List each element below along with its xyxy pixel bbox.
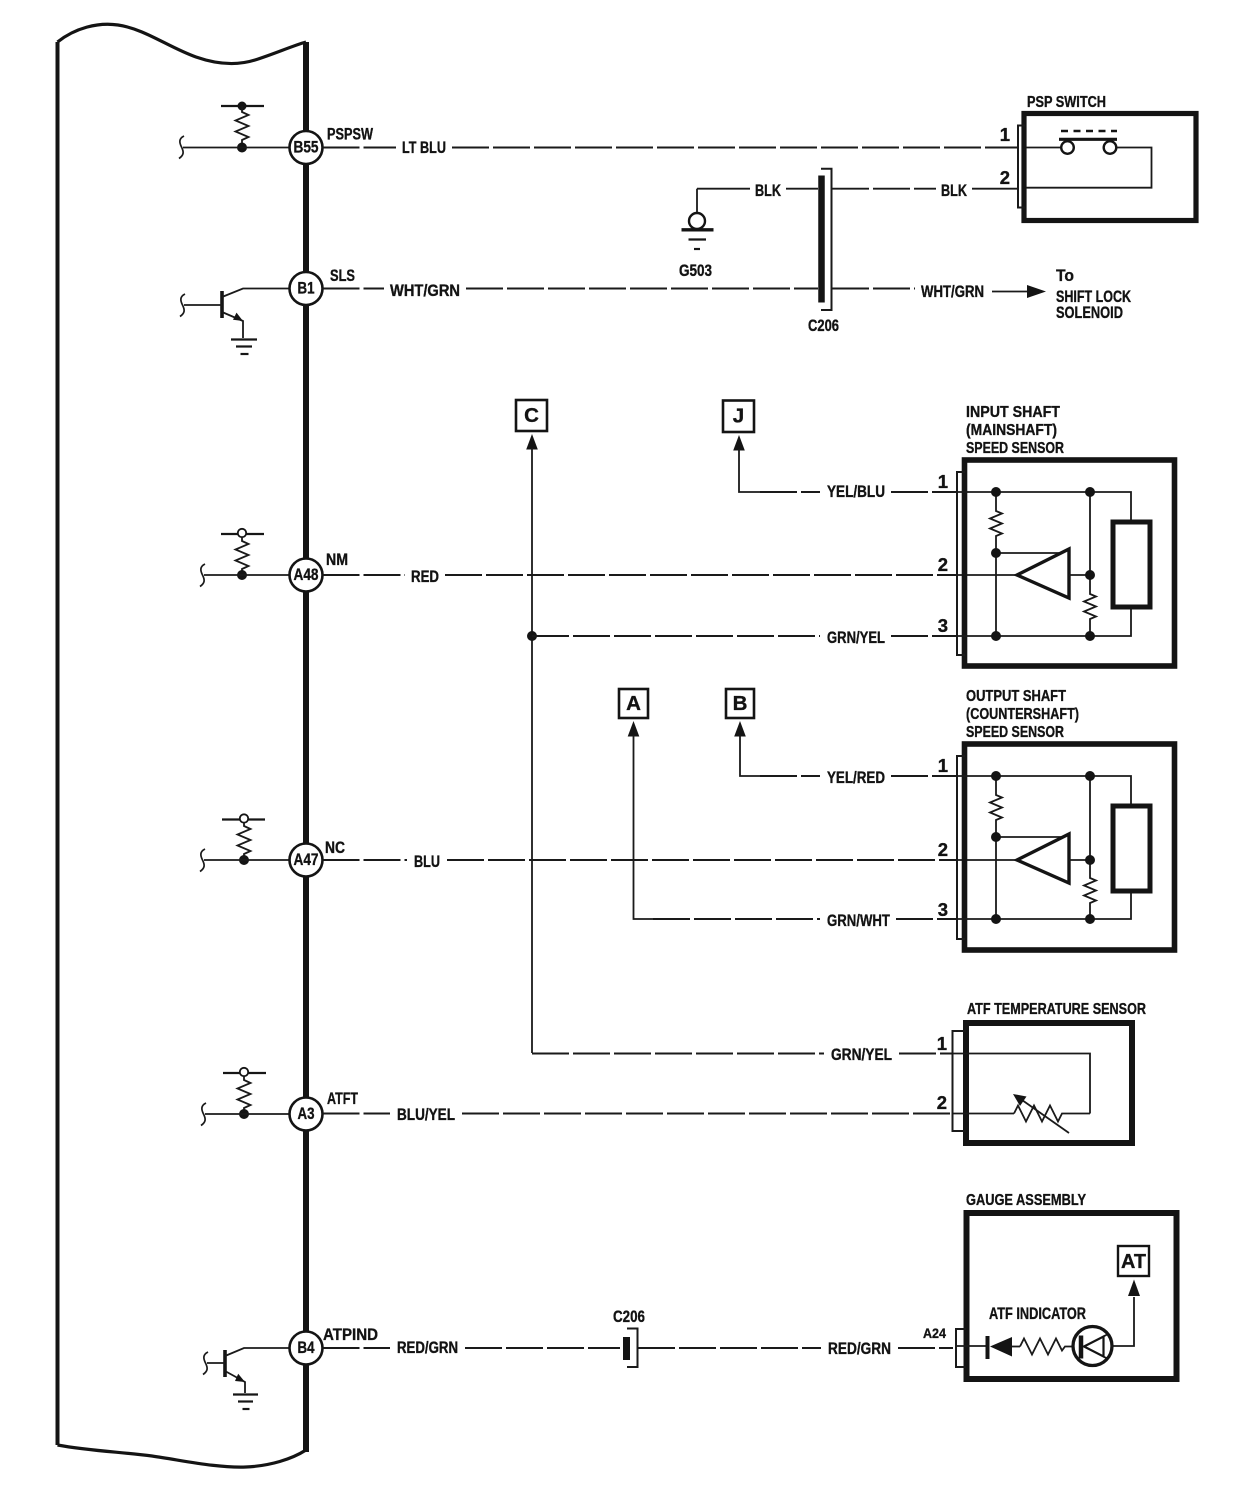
- input sensor bias resistor R-left: [990, 492, 1002, 553]
- wire BLU segment from A47: [323, 859, 408, 861]
- svg-text:BLK: BLK: [755, 182, 781, 200]
- connector C206 lower body bar: [623, 1337, 630, 1360]
- junction dot NC internal wire: [239, 855, 249, 865]
- junction dot NM internal wire: [237, 570, 247, 580]
- input sensor left rail lower segment: [995, 553, 997, 636]
- internal wire stub at B55: [183, 147, 289, 149]
- transistor Q2 base wire: [207, 1362, 225, 1364]
- wire label YEL/RED: [827, 769, 885, 787]
- svg-text:3: 3: [938, 615, 948, 636]
- arrow into box B: [734, 721, 746, 737]
- pull-up resistor at PSPSW: [236, 106, 249, 148]
- wire BLK segment to C206: [786, 188, 818, 190]
- net reference box C: [516, 400, 547, 431]
- gauge internal wire diode to resistor: [1012, 1346, 1020, 1348]
- pull-up resistor at ATFT: [238, 1076, 251, 1114]
- input sensor pin number 1: [938, 471, 948, 492]
- PSP pin number 1: [1000, 124, 1010, 145]
- output sensor left rail lower segment: [995, 837, 997, 919]
- net reference box AT: [1118, 1246, 1149, 1276]
- ground G503 symbol bars: [682, 230, 714, 249]
- wire BLU/YEL segment from A3: [323, 1113, 391, 1115]
- wire-continuation brace at Q2 base: [203, 1352, 208, 1375]
- wire label RED: [411, 568, 439, 586]
- ECU pin circle A3: [290, 1098, 323, 1131]
- wire WHT/GRN segment from C206: [832, 288, 915, 290]
- PSP switch connector bracket: [1018, 126, 1025, 208]
- svg-text:NC: NC: [325, 839, 345, 857]
- transistor Q1 base bar (SLS driver): [220, 291, 224, 318]
- output sensor load resistor R-right: [1084, 776, 1096, 919]
- PSP switch contact circle left: [1061, 141, 1074, 154]
- indicator lamp driver circle: [1073, 1327, 1112, 1366]
- svg-text:G503: G503: [679, 262, 712, 280]
- wire YEL/BLU segment to input sensor pin 1: [891, 491, 957, 493]
- ATF thermistor variable arrow: [1013, 1094, 1069, 1133]
- wire WHT/GRN segment to C206: [466, 288, 818, 290]
- svg-text:WHT/GRN: WHT/GRN: [390, 282, 460, 300]
- svg-text:C: C: [524, 404, 539, 427]
- junction dot net C and GRN/YEL: [527, 631, 537, 641]
- svg-text:2: 2: [937, 1092, 947, 1113]
- svg-text:PSP SWITCH: PSP SWITCH: [1027, 94, 1106, 111]
- wire label GRN/WHT: [827, 912, 890, 930]
- wire GRN/YEL segment from net C elbow: [532, 1053, 824, 1055]
- internal wire stub at A3: [205, 1113, 290, 1115]
- pull-up supply rail at NM: [221, 533, 264, 535]
- wire GRN/WHT segment to output sensor pin 3: [896, 918, 957, 920]
- output sensor amp output wire: [1069, 859, 1090, 861]
- ECU module band left edge: [56, 42, 60, 1445]
- supply node open circle at ATFT pull-up: [240, 1068, 248, 1076]
- wire YEL/RED segment to output sensor pin 1: [891, 775, 957, 777]
- input sensor pin1 internal rail wire: [955, 492, 1131, 522]
- input sensor junction dot: [1085, 631, 1095, 641]
- arrow into box C: [526, 434, 538, 450]
- wire label GRN/YEL input sensor: [827, 629, 885, 647]
- wire label RED/GRN left: [397, 1339, 458, 1357]
- indicator series resistor: [1020, 1339, 1072, 1355]
- indicator diode cathode bar: [986, 1336, 990, 1359]
- ATF temperature sensor title: [967, 1001, 1146, 1018]
- svg-text:1: 1: [938, 471, 948, 492]
- output sensor connector bracket: [957, 756, 965, 939]
- transistor Q2 emitter with arrow: [225, 1371, 245, 1393]
- indicator lamp triangle: [1084, 1334, 1108, 1359]
- svg-text:GRN/YEL: GRN/YEL: [827, 629, 885, 647]
- wire label LT BLU: [402, 139, 446, 157]
- output sensor pickup coil element: [1113, 806, 1150, 891]
- wire RED/GRN stub to gauge pin A24: [898, 1347, 953, 1349]
- wire label BLU: [414, 853, 440, 871]
- svg-text:ATFT: ATFT: [327, 1090, 358, 1108]
- svg-text:1: 1: [937, 1033, 947, 1054]
- wire label WHT/GRN left: [390, 282, 460, 300]
- input sensor junction dot: [991, 487, 1001, 497]
- svg-text:3: 3: [938, 899, 948, 920]
- wire-continuation brace at B55 stub: [179, 136, 184, 159]
- ECU pin circle B55: [290, 131, 323, 164]
- svg-text:PSPSW: PSPSW: [327, 126, 373, 144]
- ground symbol at Q1 emitter: [231, 340, 257, 355]
- wire-continuation brace at A48 stub: [200, 564, 205, 587]
- output sensor junction dot: [1085, 855, 1095, 865]
- sensor title line (MAINSHAFT): [966, 422, 1057, 439]
- svg-text:B4: B4: [298, 1339, 316, 1357]
- svg-text:2: 2: [938, 839, 948, 860]
- ECU module band torn bottom edge: [58, 1445, 307, 1467]
- wire RED segment from A48: [323, 574, 406, 576]
- junction dot ATFT internal wire: [239, 1109, 249, 1119]
- PSP switch box: [1024, 114, 1196, 221]
- PSP switch contact circle right: [1104, 141, 1117, 154]
- input sensor amplifier triangle U: [1017, 549, 1069, 598]
- svg-text:ATF TEMPERATURE SENSOR: ATF TEMPERATURE SENSOR: [967, 1001, 1146, 1018]
- sensor title line (COUNTERSHAFT): [966, 706, 1079, 723]
- svg-text:AT: AT: [1121, 1251, 1146, 1273]
- svg-text:C206: C206: [808, 317, 839, 335]
- ECU module band torn top edge: [58, 24, 307, 63]
- wire label BLU/YEL: [397, 1106, 455, 1124]
- svg-text:RED/GRN: RED/GRN: [397, 1339, 458, 1357]
- svg-text:B1: B1: [298, 279, 315, 297]
- input sensor pin number 2: [938, 554, 948, 575]
- svg-text:GAUGE ASSEMBLY: GAUGE ASSEMBLY: [966, 1192, 1086, 1209]
- output speed sensor box: [965, 744, 1175, 950]
- wire BLK segment from C206 to PSP switch: [832, 188, 936, 190]
- input sensor junction dot: [1085, 570, 1095, 580]
- svg-text:2: 2: [938, 554, 948, 575]
- svg-text:A: A: [626, 692, 641, 715]
- svg-text:A24: A24: [923, 1325, 946, 1341]
- output sensor junction dot: [991, 914, 1001, 924]
- output sensor pin number 3: [938, 899, 948, 920]
- connector C206 lower bracket: [627, 1329, 638, 1368]
- svg-text:BLK: BLK: [941, 182, 967, 200]
- connector C206 body bar: [818, 176, 825, 303]
- ECU pin circle A48: [290, 559, 323, 592]
- gauge assembly title: [966, 1192, 1086, 1209]
- indicator diode D1: [990, 1337, 1012, 1357]
- wire-continuation brace at A3 stub: [201, 1103, 206, 1126]
- wire YEL/BLU segment from net J: [760, 491, 820, 493]
- svg-text:RED: RED: [411, 568, 439, 586]
- output sensor amplifier triangle U: [1017, 834, 1069, 883]
- wire label GRN/YEL ATF sensor: [831, 1046, 892, 1064]
- ATF indicator label: [989, 1305, 1086, 1323]
- ATF sensor pin1 internal wire: [953, 1054, 1090, 1114]
- ground G503 riser wire: [696, 189, 698, 213]
- svg-text:LT BLU: LT BLU: [402, 139, 446, 157]
- svg-text:ATPIND: ATPIND: [323, 1326, 378, 1344]
- connector label C206: [808, 317, 839, 335]
- svg-text:NM: NM: [326, 551, 348, 569]
- pull-up supply rail at PSPSW: [221, 105, 264, 107]
- svg-text:YEL/RED: YEL/RED: [827, 769, 885, 787]
- ECU pin circle A47: [290, 844, 323, 877]
- wire net J vertical run: [739, 449, 762, 492]
- ground label G503: [679, 262, 712, 280]
- indicator lamp base bar: [1079, 1336, 1084, 1359]
- svg-text:RED/GRN: RED/GRN: [828, 1340, 891, 1358]
- sensor title line INPUT SHAFT: [966, 404, 1060, 421]
- svg-text:B55: B55: [294, 138, 319, 156]
- ground G503 circle: [689, 213, 705, 229]
- svg-text:SPEED SENSOR: SPEED SENSOR: [966, 724, 1064, 741]
- supply node open circle at NM pull-up: [238, 529, 246, 537]
- svg-text:WHT/GRN: WHT/GRN: [921, 283, 984, 301]
- input speed sensor box: [965, 460, 1175, 666]
- transistor Q1 collector: [222, 289, 289, 298]
- svg-text:SLS: SLS: [330, 267, 355, 285]
- input sensor pin number 3: [938, 615, 948, 636]
- ATF temperature sensor box: [966, 1023, 1132, 1143]
- output sensor pin1 internal rail wire: [955, 776, 1131, 806]
- wire YEL/RED segment from net B: [760, 775, 820, 777]
- PSP switch title: [1027, 94, 1106, 111]
- gauge pin label A24: [923, 1325, 946, 1341]
- ATF sensor pin2 internal wire: [953, 1113, 1014, 1115]
- svg-text:B: B: [733, 692, 748, 715]
- connector C206 lower label: [613, 1308, 645, 1326]
- svg-text:(COUNTERSHAFT): (COUNTERSHAFT): [966, 706, 1079, 723]
- output sensor junction dot: [1085, 771, 1095, 781]
- PSP pin number 2: [1000, 167, 1010, 188]
- wire LT BLU segment from B55: [323, 147, 397, 149]
- input sensor junction dot: [991, 548, 1001, 558]
- svg-text:SPEED SENSOR: SPEED SENSOR: [966, 440, 1064, 457]
- wire GRN/YEL segment to ATF sensor pin 1: [899, 1053, 952, 1055]
- svg-text:ATF INDICATOR: ATF INDICATOR: [989, 1305, 1086, 1323]
- wire BLU/YEL segment to ATF sensor pin 2: [462, 1113, 952, 1115]
- svg-text:INPUT SHAFT: INPUT SHAFT: [966, 404, 1060, 421]
- net reference box A: [619, 689, 648, 718]
- pin label ATPIND: [323, 1326, 378, 1344]
- pin label NC: [325, 839, 345, 857]
- output sensor pin3 internal rail wire: [955, 891, 1131, 919]
- wire RED/GRN segment from B4: [323, 1347, 391, 1349]
- wire GRN/YEL segment to input sensor pin 3: [891, 635, 957, 637]
- input sensor mid tap wire: [996, 552, 1066, 554]
- arrow into box J: [733, 435, 745, 451]
- PSP switch pin1 internal wire: [1026, 147, 1061, 149]
- destination label To SHIFT LOCK SOLENOID: [1056, 267, 1131, 322]
- wire label WHT/GRN right: [921, 283, 984, 301]
- input sensor pin3 internal rail wire: [955, 607, 1131, 636]
- wire LT BLU segment to PSP switch pin 1: [452, 147, 1018, 149]
- wire WHT/GRN segment from B1: [323, 288, 385, 290]
- output sensor pin number 2: [938, 839, 948, 860]
- ATF sensor connector bracket: [953, 1031, 967, 1131]
- wire RED/GRN segment from C206: [638, 1347, 821, 1349]
- gauge connector bracket A24: [956, 1329, 966, 1367]
- pull-up supply rail at ATFT: [223, 1072, 266, 1074]
- PSP switch actuated-position dashed line: [1061, 130, 1117, 133]
- ATF sensor pin number 2: [937, 1092, 947, 1113]
- input sensor connector bracket: [957, 472, 965, 655]
- wire-continuation brace at A47 stub: [200, 849, 205, 872]
- wire GRN/WHT segment from net A: [653, 918, 820, 920]
- gauge internal wire to diode: [956, 1345, 986, 1347]
- pin label ATFT: [327, 1090, 358, 1108]
- input sensor junction dot: [1085, 487, 1095, 497]
- internal wire stub at A48: [204, 574, 289, 576]
- gauge internal wire to net AT: [1111, 1297, 1135, 1346]
- net reference box J: [723, 401, 754, 433]
- output sensor mid tap wire: [996, 836, 1066, 838]
- svg-text:GRN/YEL: GRN/YEL: [831, 1046, 892, 1064]
- pull-up resistor at NM: [236, 537, 249, 575]
- transistor Q1 base wire: [184, 304, 222, 306]
- PSP switch internal return wire: [1026, 148, 1152, 188]
- wire net B vertical run: [740, 735, 762, 776]
- ATF thermistor resistor element: [1014, 1106, 1090, 1122]
- wire GRN/YEL segment from net C: [532, 635, 820, 637]
- input sensor junction dot: [991, 631, 1001, 641]
- arrow into box A: [628, 721, 640, 737]
- sensor title line OUTPUT SHAFT: [966, 688, 1066, 705]
- wire label BLK left: [755, 182, 781, 200]
- input sensor load resistor R-right: [1084, 492, 1096, 636]
- input sensor pickup coil element: [1113, 522, 1150, 607]
- pin label NM: [326, 551, 348, 569]
- svg-text:2: 2: [1000, 167, 1010, 188]
- input sensor amp output wire: [1069, 574, 1090, 576]
- wire RED segment to input sensor pin 2: [445, 574, 1016, 576]
- sensor title line SPEED SENSOR: [966, 724, 1064, 741]
- svg-text:BLU: BLU: [414, 853, 440, 871]
- arrow into box AT: [1128, 1280, 1140, 1297]
- output sensor junction dot: [991, 832, 1001, 842]
- pin label PSPSW: [327, 126, 373, 144]
- junction dot PSPSW internal wire: [237, 143, 247, 153]
- pull-up resistor at NC: [238, 823, 251, 861]
- svg-text:OUTPUT SHAFT: OUTPUT SHAFT: [966, 688, 1066, 705]
- transistor Q1 emitter with arrow: [222, 312, 243, 338]
- wire net A vertical run: [634, 735, 656, 919]
- svg-text:A47: A47: [294, 851, 319, 869]
- svg-text:C206: C206: [613, 1308, 645, 1326]
- wire BLK stub into PSP pin 2: [972, 188, 1018, 190]
- wire net C vertical run: [531, 448, 533, 1053]
- svg-text:1: 1: [938, 755, 948, 776]
- internal wire stub at A47: [204, 859, 289, 861]
- ATF sensor pin number 1: [937, 1033, 947, 1054]
- output sensor bias resistor R-left: [990, 776, 1002, 837]
- wire BLU segment to output sensor pin 2: [447, 859, 1016, 861]
- svg-text:A3: A3: [298, 1105, 315, 1123]
- wire RED/GRN segment to C206: [465, 1347, 620, 1349]
- PSP switch blade bar: [1059, 138, 1117, 141]
- supply node open circle at NC pull-up: [240, 814, 248, 822]
- svg-text:YEL/BLU: YEL/BLU: [827, 483, 885, 501]
- pin label SLS: [330, 267, 355, 285]
- svg-text:SOLENOID: SOLENOID: [1056, 304, 1123, 322]
- transistor Q2 base bar (ATPIND driver): [223, 1350, 227, 1377]
- svg-text:A48: A48: [294, 566, 319, 584]
- wire BLK segment from G503: [697, 188, 750, 190]
- ground symbol at Q2 emitter: [233, 1395, 258, 1410]
- wire label YEL/BLU: [827, 483, 885, 501]
- output sensor pin number 1: [938, 755, 948, 776]
- svg-text:BLU/YEL: BLU/YEL: [397, 1106, 455, 1124]
- wire-continuation brace at Q1 base: [180, 294, 185, 317]
- gauge assembly box: [967, 1213, 1177, 1379]
- net reference box B: [726, 689, 754, 718]
- svg-text:GRN/WHT: GRN/WHT: [827, 912, 890, 930]
- svg-text:1: 1: [1000, 124, 1010, 145]
- ECU pin circle B1: [290, 272, 323, 305]
- wire label RED/GRN right: [828, 1340, 891, 1358]
- svg-text:J: J: [733, 405, 744, 428]
- transistor Q2 collector: [225, 1348, 290, 1356]
- connector C206 bracket: [821, 169, 832, 310]
- supply node dot at PSPSW pull-up: [238, 102, 247, 111]
- output sensor junction dot: [1085, 914, 1095, 924]
- sensor title line SPEED SENSOR: [966, 440, 1064, 457]
- arrow to shift lock solenoid: [992, 285, 1046, 298]
- output sensor junction dot: [991, 771, 1001, 781]
- ECU pin circle B4: [290, 1332, 323, 1365]
- pull-up supply rail at NC: [222, 818, 265, 820]
- wire label BLK right: [941, 182, 967, 200]
- svg-text:To: To: [1056, 267, 1074, 285]
- ECU module band right edge (main bus line): [303, 42, 309, 1452]
- svg-text:(MAINSHAFT): (MAINSHAFT): [966, 422, 1057, 439]
